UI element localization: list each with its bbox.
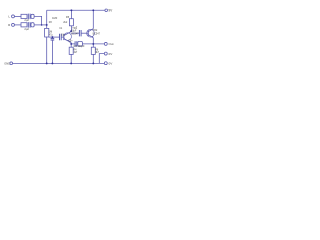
terminal Out: [104, 42, 107, 45]
terminal +9V: [105, 9, 108, 12]
resistor R3: [45, 28, 49, 37]
wire C4 coupling: [71, 32, 79, 34]
svg-text:9V: 9V: [108, 8, 113, 12]
wire C5 to ground rail: [51, 40, 53, 63]
svg-text:L: L: [8, 14, 10, 18]
wire left vertical from rail corner to input node: [46, 10, 48, 25]
svg-text:GND: GND: [4, 61, 10, 65]
capacitor C1 body: [31, 14, 34, 18]
capacitor C1 plates: [28, 14, 30, 20]
capacitor C3 plates: [60, 34, 62, 41]
svg-text:R3: R3: [49, 21, 53, 24]
svg-text:C1: C1: [59, 27, 63, 30]
wire R6 to ground rail: [92, 54, 94, 63]
wire L to join: [34, 16, 42, 25]
svg-text:BC547: BC547: [71, 34, 79, 36]
resistor R4 emitter TR1: [69, 47, 73, 54]
capacitor C4 plates: [79, 30, 81, 36]
terminal 0V mid: [104, 52, 107, 55]
resistor R2: [21, 23, 27, 27]
transistor TR1: [64, 32, 72, 43]
svg-text:R: R: [8, 23, 11, 27]
wire top rail: [47, 9, 105, 11]
svg-text:10µ: 10µ: [61, 33, 66, 36]
capacitor C5 plates: [51, 38, 55, 40]
input terminal L: [12, 15, 15, 18]
wire C4 to TR2 base: [81, 32, 88, 34]
resistor R1: [21, 14, 27, 18]
wire base line: [49, 36, 60, 38]
capacitor C2 body: [31, 23, 34, 27]
wire R5 to collector: [70, 26, 72, 32]
wire node to bias resistor: [46, 25, 48, 29]
svg-text:2µ2: 2µ2: [24, 27, 29, 31]
svg-text:1M0: 1M0: [52, 16, 58, 20]
svg-text:10µF: 10µF: [71, 29, 77, 32]
svg-text:C3+: C3+: [68, 39, 73, 42]
capacitor C5 bypass stub: [51, 37, 53, 38]
wire rail to R5: [70, 10, 72, 18]
transistor TR2: [87, 29, 95, 38]
svg-text:+: +: [76, 25, 78, 28]
svg-text:1M: 1M: [49, 30, 52, 33]
capacitor C6 body: [78, 41, 83, 46]
svg-text:2k2: 2k2: [63, 21, 68, 24]
wire R3 to ground rail: [46, 37, 48, 63]
junction dots: [41, 9, 94, 64]
wire L input: [14, 15, 21, 17]
wire R to summing node: [34, 24, 47, 26]
terminal 0V rail end: [104, 62, 107, 65]
wire out line right: [82, 43, 104, 45]
svg-text:BC547: BC547: [93, 32, 101, 35]
svg-text:0V: 0V: [109, 52, 114, 56]
svg-text:47µ: 47µ: [49, 35, 54, 37]
svg-text:0V: 0V: [109, 62, 114, 66]
resistor R6: [91, 47, 95, 54]
bottom ground rail: [13, 62, 105, 64]
resistor R5: [69, 19, 73, 26]
wire out line left: [71, 43, 75, 45]
terminal GND left: [10, 62, 13, 65]
wire R input: [14, 24, 21, 26]
labels: [0, 0, 1, 1]
wire TR2 collector to rail: [92, 10, 94, 28]
input terminal R: [12, 23, 15, 26]
svg-text:2µ2: 2µ2: [24, 18, 29, 22]
wire C3 to base: [61, 36, 64, 38]
svg-text:4k7: 4k7: [95, 51, 100, 54]
capacitor C6 plates: [75, 41, 77, 46]
wire TR2 emitter down: [92, 38, 94, 48]
capacitor C2 plates: [28, 22, 30, 28]
svg-text:Out: Out: [109, 42, 114, 46]
wire 0V riser: [99, 54, 104, 64]
wire collector node down emitter: [70, 43, 72, 64]
svg-text:4k7: 4k7: [73, 51, 78, 54]
